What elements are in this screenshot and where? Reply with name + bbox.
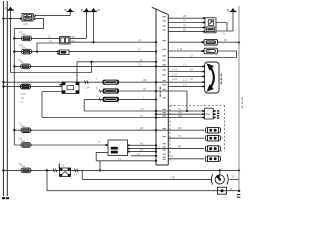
svg-text:2W: 2W	[178, 110, 182, 114]
power triangle a	[83, 8, 90, 12]
wire U2 row2	[168, 22, 205, 24]
wire ground row 190.7	[47, 190, 239, 192]
connector pin number marks	[163, 16, 166, 160]
wire supply row 170.4	[3, 169, 239, 171]
svg-text:3B: 3B	[143, 78, 146, 82]
wire B1 out bottom to ECU (row 42.2)	[70, 41, 156, 43]
bus terminal marks	[2, 197, 5, 199]
riser x91.5	[91, 62, 93, 73]
border side label	[242, 97, 243, 108]
wire K1 top pin to triangle 15	[35, 15, 70, 17]
solenoid C row 99.4	[84, 98, 156, 100]
svg-text:2.0B: 2.0B	[170, 176, 175, 179]
injector V3	[205, 146, 220, 152]
wire injector row4 158.8	[168, 158, 204, 160]
motor M	[211, 169, 228, 184]
fuse F5	[21, 168, 31, 173]
fuse F1	[22, 36, 32, 41]
injector V4	[205, 156, 220, 162]
wire U2 row3	[168, 27, 205, 29]
svg-text:5-6: 5-6	[140, 107, 144, 111]
wire S1 out to border	[218, 41, 240, 43]
wire K1 output loop	[14, 19, 43, 29]
loop feed vertical x14.3	[13, 29, 15, 145]
wire Pkp row1 111	[84, 110, 204, 112]
riser x187 down to row 111	[186, 91, 188, 111]
power triangle 15	[67, 8, 74, 12]
connector box B1	[60, 37, 71, 45]
triangle stem K1	[10, 11, 12, 19]
wire row 86.4 bus to F3 to R2	[3, 85, 62, 87]
wire ground row 160.8	[96, 160, 156, 162]
svg-text:7G: 7G	[178, 134, 181, 138]
svg-text:3Bn: 3Bn	[178, 114, 183, 118]
svg-text:4/33: 4/33	[23, 22, 29, 26]
wire injector row3 148.6 from resistor pack	[128, 148, 205, 150]
fuse FB	[21, 143, 31, 148]
control unit U2	[205, 18, 216, 33]
wire injector row1 130.2 from fuse FA	[14, 129, 204, 131]
wire row 72.5 from x10.5	[11, 72, 92, 74]
wire U2 loop right	[216, 23, 227, 32]
wire PTC out row 151.6	[130, 151, 156, 153]
solenoid valve B	[103, 88, 120, 93]
connector bottom	[156, 164, 168, 166]
connector left rail	[155, 9, 157, 165]
relay R2	[60, 82, 80, 94]
riser x100 to supply row	[99, 161, 101, 171]
svg-text:5R: 5R	[183, 28, 186, 32]
wire Pkp row3 117.5	[42, 117, 205, 119]
svg-text:4G: 4G	[183, 24, 186, 28]
svg-text:15A: 15A	[21, 164, 26, 168]
wire U2 row1	[168, 17, 205, 19]
svg-text:6B: 6B	[140, 148, 143, 152]
fuse F3	[21, 84, 31, 89]
riser x84.2 down to row 111	[83, 99, 85, 111]
wire S1 row 42.2	[168, 41, 204, 43]
svg-text:2R: 2R	[140, 126, 143, 130]
wire fuse FB row 145	[14, 144, 108, 146]
svg-text:10A: 10A	[21, 124, 26, 128]
relay K1	[22, 14, 35, 22]
riser x77 R2 top pin	[76, 62, 78, 82]
gauge U3	[205, 62, 219, 93]
wire row 82.2 bus to R2	[3, 81, 62, 83]
gauge pin marks	[202, 66, 204, 68]
fuel pump	[59, 164, 70, 177]
wire motor row 179.4	[82, 178, 211, 180]
wire motor out	[229, 178, 239, 180]
wire row 61.8 R2 coil to ECU	[77, 61, 156, 63]
injector V2	[205, 135, 220, 141]
svg-text:1-9: 1-9	[183, 82, 187, 86]
riser F2 to B1 pin2	[37, 43, 60, 52]
wire PTC left loop row 152.4	[96, 152, 108, 160]
svg-text:1-6: 1-6	[183, 62, 187, 66]
svg-text:15/1: 15/1	[21, 92, 27, 96]
svg-text:3Y: 3Y	[183, 19, 186, 23]
wire bus to relay K1 (row 18.6)	[3, 18, 22, 20]
resistor pack PTC	[105, 140, 130, 156]
svg-text:2-20: 2-20	[172, 73, 178, 77]
wire B2 out to ECU (row 51.6)	[69, 51, 156, 53]
wire PTC out row 145.3	[130, 144, 156, 146]
svg-text:6R: 6R	[178, 126, 181, 130]
ground unit X-box	[218, 187, 227, 194]
svg-text:4R: 4R	[140, 141, 143, 145]
solenoid valve C	[103, 97, 120, 102]
connector box B2	[60, 50, 70, 55]
bus line 31	[6, 1, 8, 196]
U2 left pin marks	[203, 17, 205, 19]
power triangle b	[90, 8, 97, 12]
injector V1	[205, 127, 220, 133]
bus line 30	[2, 1, 4, 196]
stub row 155.8	[131, 155, 156, 157]
svg-text:1-4: 1-4	[183, 78, 187, 82]
svg-text:8B: 8B	[178, 145, 181, 149]
svg-text:1.5R: 1.5R	[84, 86, 90, 90]
svg-text:1G: 1G	[178, 107, 181, 111]
power triangle above K1	[7, 7, 14, 11]
wire injector row2 138.2	[168, 137, 204, 139]
fuse F2	[22, 49, 32, 54]
triangle 15 stem	[69, 12, 71, 16]
svg-text:2B: 2B	[183, 14, 186, 18]
wire Pkp row2 114.2	[156, 113, 205, 115]
solenoid valve A	[103, 80, 120, 85]
svg-text:1-45: 1-45	[177, 47, 183, 51]
svg-text:Pkp: Pkp	[206, 112, 211, 116]
triangle ref marks	[5, 7, 229, 10]
feed wire vertical x10.5	[10, 19, 12, 73]
ECU dashed box	[170, 105, 225, 161]
wire U2 row4	[168, 31, 205, 33]
wire fuse F2 row 51.6	[14, 51, 59, 53]
wire S2 loop	[168, 51, 236, 58]
fuse FA	[21, 128, 31, 133]
gauge side label	[221, 74, 222, 85]
wire fuse F2b row 66.4 to gauge pin1	[14, 65, 204, 67]
riser x82.2 pump to motor row	[81, 170, 83, 179]
sensor unit U4 Pkp	[202, 108, 215, 119]
Pkp right pin column	[217, 110, 219, 119]
wire B1 out top to triangle a (row 38.4)	[70, 37, 87, 39]
wire solenoid B row 91	[100, 90, 187, 92]
wire S2 row 51	[168, 50, 204, 52]
wire triangle to U2	[216, 30, 233, 32]
svg-text:15A: 15A	[21, 32, 26, 36]
sensor S1	[204, 39, 218, 45]
power triangle right	[229, 8, 236, 12]
svg-text:25A: 25A	[21, 45, 26, 49]
wire gauge row3 76.5	[168, 76, 204, 78]
triangle b stem down	[93, 12, 95, 42]
wire R2 bottom pin row 91.5	[42, 91, 62, 93]
wire gauge row2 71.5	[168, 71, 204, 73]
svg-text:10A: 10A	[21, 139, 26, 143]
connector diagonal	[152, 7, 169, 14]
fuse F2b	[21, 64, 31, 69]
connector rail label	[160, 87, 161, 97]
sensor S2	[204, 48, 218, 54]
svg-text:9G: 9G	[171, 156, 174, 158]
wire row 86.4 gauge pin5 (right rail)	[168, 85, 204, 87]
wire fuse F1 row 38.4	[14, 37, 59, 39]
page border right	[238, 6, 240, 191]
triangle a stem down	[86, 12, 88, 38]
svg-text:5A: 5A	[20, 60, 23, 64]
wire R2 out row 82.2 to solenoid A	[79, 81, 103, 83]
triangle right stem	[232, 12, 234, 31]
border bottom ticks	[237, 194, 240, 195]
riser x47 to ground row	[46, 170, 48, 190]
connector right rail	[167, 15, 169, 165]
svg-text:3-1k: 3-1k	[172, 77, 178, 81]
svg-text:1-15: 1-15	[172, 68, 178, 72]
riser x42 down to row 117.5	[41, 92, 43, 118]
